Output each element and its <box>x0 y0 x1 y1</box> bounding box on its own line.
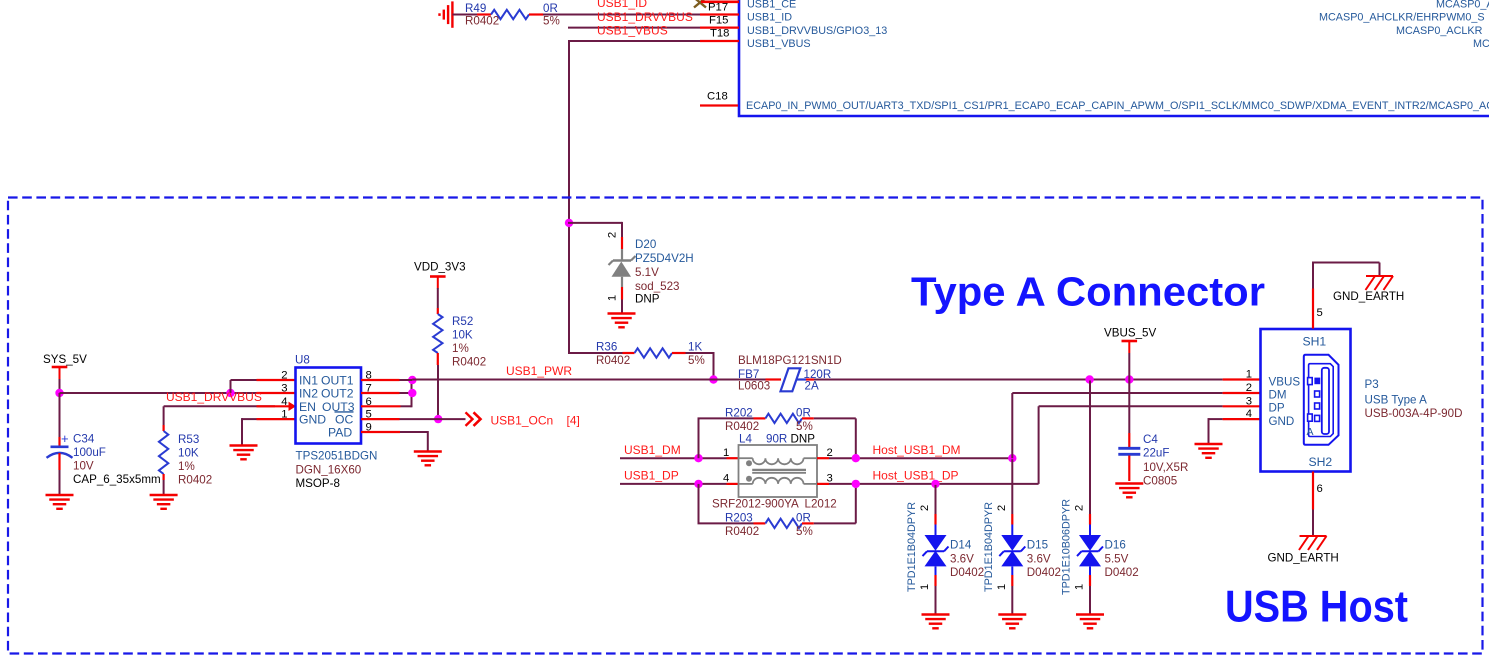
svg-text:4: 4 <box>1246 408 1252 420</box>
resistor R36 <box>623 348 686 357</box>
label R53 tolerance <box>178 460 195 473</box>
svg-text:22uF: 22uF <box>1143 447 1169 460</box>
wire D14 to ground <box>935 586 937 614</box>
ground at R53 <box>150 495 178 509</box>
P3 pin name SH1 <box>1303 335 1327 349</box>
U8 pin numbers right <box>366 370 372 434</box>
power symbol VDD_3V3 <box>430 277 446 289</box>
pin number 1 of D16 <box>1074 584 1086 590</box>
svg-text:USB Host: USB Host <box>1225 583 1408 632</box>
wire R203 left riser <box>698 484 754 524</box>
label D15 refdes <box>1027 539 1048 552</box>
L4 pin number 1 <box>723 447 729 459</box>
svg-text:USB1_DRVVBUS: USB1_DRVVBUS <box>166 390 262 404</box>
svg-text:GND: GND <box>1269 415 1295 428</box>
wire pin6 to earth <box>1312 510 1314 537</box>
label C4 voltage 10V,X5R <box>1143 461 1188 474</box>
capacitor C34 (polarized) <box>47 431 73 458</box>
pin 6 stub P3 <box>1312 472 1314 510</box>
pin 2 stub L4 <box>817 457 829 459</box>
svg-text:[4]: [4] <box>567 413 580 427</box>
pin 1 stub of D20 <box>621 287 623 300</box>
svg-text:TPS2051BDGN: TPS2051BDGN <box>296 450 378 463</box>
label R36 tolerance <box>688 354 705 367</box>
svg-text:USB1_DRVVBUS: USB1_DRVVBUS <box>597 10 693 24</box>
svg-text:5%: 5% <box>796 525 813 538</box>
op-amp U8 box <box>296 368 362 444</box>
resistor R203 <box>754 519 814 528</box>
wire U8 pin1 to ground <box>242 418 257 444</box>
L4 pin number 2 <box>827 447 833 459</box>
svg-text:MCASP0: MCASP0 <box>1473 38 1489 50</box>
svg-text:3.6V: 3.6V <box>950 552 974 565</box>
L4 pin number 3 <box>827 473 833 485</box>
wire USB1_DP <box>620 483 727 485</box>
junction VBUS/D16 <box>1085 375 1093 383</box>
label R202 refdes <box>725 407 753 420</box>
ferrite bead FB7 <box>781 368 807 391</box>
pin stub C34 top <box>58 437 60 446</box>
net label Host_USB1_DM <box>873 443 961 457</box>
pin 2 stub U8 <box>257 379 296 381</box>
svg-text:MCASP0_ACLKR: MCASP0_ACLKR <box>1396 25 1483 37</box>
net label USB1_OCn <box>491 413 554 427</box>
pin F15 stub (USB1_DRVVBUS) <box>700 27 739 29</box>
IC signal USB1_ID <box>747 12 792 24</box>
pin 2 stub P3 <box>1223 392 1261 394</box>
wire C34 to ground <box>59 470 61 494</box>
wire PAD to ground <box>400 431 428 451</box>
svg-text:GND_EARTH: GND_EARTH <box>1333 290 1404 303</box>
wire OC to chevron <box>400 418 466 420</box>
pin number F15 <box>709 15 728 27</box>
net label USB1_DRVVBUS <box>597 10 693 24</box>
label L4 DNP <box>791 433 816 446</box>
svg-text:90R: 90R <box>766 433 787 446</box>
label R36 refdes <box>596 341 617 354</box>
svg-text:DP: DP <box>1269 402 1285 415</box>
label D14 part TPD1E1B04DPYR <box>906 502 918 592</box>
IC signal MCASP0_ACLKR (clipped) <box>1396 25 1483 37</box>
svg-text:PAD: PAD <box>328 425 352 439</box>
svg-text:R203: R203 <box>725 512 753 525</box>
label U8 DGN_16X60 <box>296 463 362 476</box>
svg-text:R52: R52 <box>452 315 473 328</box>
pin USB1_CE stub <box>701 0 739 3</box>
wire FB7 to P3 pin1 <box>814 379 1223 381</box>
label D20 footprint sod_523 <box>635 280 679 293</box>
svg-text:DGN_16X60: DGN_16X60 <box>296 463 362 476</box>
label D20 refdes <box>635 238 656 251</box>
label FB7 part BLM18PG121SN1D <box>738 354 842 367</box>
pin 8 stub U8 <box>361 379 400 381</box>
IC signal USB1_DRVVBUS/GPIO3_13 <box>747 25 887 37</box>
label R202 value 0R <box>796 407 811 420</box>
svg-text:CAP_6_35x5mm: CAP_6_35x5mm <box>73 473 161 486</box>
label L4 refdes <box>739 433 752 446</box>
svg-text:3.6V: 3.6V <box>1027 552 1051 565</box>
wire USB1_VBUS horizontal <box>569 40 700 42</box>
pin 4 stub L4 <box>727 483 739 485</box>
label R52 value 10K <box>452 329 473 342</box>
pin 1 stub D16 <box>1089 575 1091 586</box>
P3 pin numbers <box>1246 369 1252 420</box>
pin 5 stub U8 <box>361 418 400 420</box>
label R203 footprint <box>725 525 759 538</box>
wire R203 right riser <box>814 484 856 524</box>
label P3 refdes <box>1365 378 1379 391</box>
ground at D14 <box>922 615 950 629</box>
pin number 2 of D15 <box>996 505 1008 511</box>
pin number 1 of D15 <box>996 584 1008 590</box>
label U8 MSOP-8 <box>296 477 340 490</box>
pin 7 stub U8 <box>361 392 400 394</box>
wire VBUS_5V to net <box>1128 353 1130 380</box>
label D14 refdes <box>950 539 972 552</box>
pin 1 stub L4 <box>727 457 739 459</box>
svg-text:1K: 1K <box>688 341 702 354</box>
svg-text:SH2: SH2 <box>1309 455 1333 469</box>
wire VDD_3V3 to R52 <box>437 288 439 308</box>
svg-text:4: 4 <box>723 473 729 485</box>
svg-text:PZ5D4V2H: PZ5D4V2H <box>635 252 694 265</box>
ground at D20 <box>608 314 636 328</box>
svg-text:USB1_PWR: USB1_PWR <box>506 364 572 378</box>
svg-text:SRF2012-900YA: SRF2012-900YA <box>712 498 799 511</box>
net label Host_USB1_DP <box>873 469 959 483</box>
svg-text:D0402: D0402 <box>1027 566 1061 579</box>
TVS diode D16 <box>1077 535 1103 566</box>
ground at U8 pin1 <box>230 446 258 460</box>
svg-text:6: 6 <box>1317 483 1323 495</box>
svg-text:P3: P3 <box>1365 378 1379 391</box>
D14 bottom lead <box>935 567 937 576</box>
svg-text:C34: C34 <box>73 433 95 446</box>
junction OUT1 tie <box>408 376 416 384</box>
label L4 part SRF2012-900YA <box>712 498 799 511</box>
svg-text:USB1_OCn: USB1_OCn <box>491 413 554 427</box>
pin 1 stub D15 <box>1011 575 1013 586</box>
pin 2 stub D15 <box>1011 514 1013 525</box>
U8 pin name EN <box>299 400 316 414</box>
svg-text:R202: R202 <box>725 407 753 420</box>
P3 pin number 6 <box>1317 483 1323 495</box>
svg-text:D16: D16 <box>1105 539 1126 552</box>
wire to D15 <box>1011 459 1013 514</box>
net label USB1_DM <box>624 443 681 457</box>
label GND_EARTH top <box>1333 290 1404 303</box>
wire R52 to OC net <box>437 365 439 419</box>
wire OUT2 to tie <box>400 392 412 394</box>
pin 3 stub L4 <box>817 483 829 485</box>
U8 pin numbers left <box>281 370 287 421</box>
svg-text:0R: 0R <box>796 512 811 525</box>
label R53 refdes <box>178 433 199 446</box>
common-mode choke L4 <box>739 445 818 497</box>
pin 3 stub P3 <box>1223 405 1261 407</box>
pin 1 stub U8 <box>257 418 296 420</box>
label R52 tolerance <box>452 342 469 355</box>
net label USB1_ID <box>597 0 647 10</box>
no-connect X on pin USB1_CE <box>694 0 706 8</box>
label FB7 current 2A <box>805 380 819 393</box>
label FB7 value 120R <box>804 368 832 381</box>
pin 4 stub P3 <box>1223 418 1261 420</box>
junction R36/USB1_PWR <box>709 375 717 383</box>
svg-text:USB-003A-4P-90D: USB-003A-4P-90D <box>1365 407 1463 420</box>
connector P3 box <box>1261 329 1351 472</box>
svg-text:2: 2 <box>919 505 931 511</box>
wire R36 to USB1_PWR <box>686 352 714 380</box>
label D16 footprint D0402 <box>1105 566 1139 579</box>
svg-text:1: 1 <box>919 584 931 590</box>
label VDD_3V3 <box>414 261 466 274</box>
label P3 USB Type A <box>1365 394 1428 407</box>
junction SYS_5V/C34 <box>55 389 63 397</box>
svg-text:Type A Connector: Type A Connector <box>911 268 1265 314</box>
pin number 1 of D20 <box>607 295 619 301</box>
svg-text:MSOP-8: MSOP-8 <box>296 477 340 490</box>
svg-text:R0402: R0402 <box>465 15 499 28</box>
junction DP/R203 right <box>852 480 860 488</box>
TVS diode D15 <box>999 535 1025 566</box>
svg-text:TPD1E10B06DPYR: TPD1E10B06DPYR <box>1061 499 1073 595</box>
IC signal MCASP0_AHCLKR/EHRPWM0_ (clipped) <box>1319 12 1485 24</box>
label SYS_5V <box>43 353 87 366</box>
svg-text:10V: 10V <box>73 460 94 473</box>
svg-text:3: 3 <box>1246 395 1252 407</box>
U8 pin name PAD <box>328 425 352 439</box>
power symbol VBUS_5V <box>1122 341 1138 353</box>
pin P17 stub (USB1_ID) <box>700 13 739 15</box>
svg-text:C0805: C0805 <box>1143 474 1177 487</box>
svg-text:5%: 5% <box>796 420 813 433</box>
svg-text:0R: 0R <box>543 2 558 15</box>
svg-text:TPD1E1B04DPYR: TPD1E1B04DPYR <box>983 502 995 592</box>
ground at U8 PAD <box>414 452 442 466</box>
svg-text:R0402: R0402 <box>178 474 212 487</box>
off-page chevron USB1_OCn <box>466 412 481 426</box>
label D14 value 3.6V <box>950 552 974 565</box>
label C34 refdes <box>73 433 95 446</box>
junction DM/R202 left <box>694 454 702 462</box>
U8 pin name OUT1 <box>321 373 354 387</box>
wire to D20 <box>568 222 622 237</box>
svg-text:1: 1 <box>996 584 1008 590</box>
svg-text:USB Type A: USB Type A <box>1365 394 1428 407</box>
net label USB1_PWR <box>506 364 572 378</box>
wire R202 right riser <box>814 418 856 458</box>
pin number P17 <box>708 2 728 14</box>
junction DM/D15 <box>1008 454 1016 462</box>
wire DP riser to P3 <box>1039 406 1223 484</box>
label C4 footprint C0805 <box>1143 474 1177 487</box>
wire VBUS to C4 <box>1128 380 1130 434</box>
svg-text:Host_USB1_DP: Host_USB1_DP <box>873 469 959 483</box>
label L4 value 90R <box>766 433 787 446</box>
U8 pin name GND <box>299 413 326 427</box>
wire R53 to ground <box>163 480 165 494</box>
svg-text:+: + <box>61 431 69 446</box>
svg-text:10K: 10K <box>178 447 199 460</box>
label D16 refdes <box>1105 539 1126 552</box>
label D16 value 5.5V <box>1105 552 1129 565</box>
svg-text:USB1_DM: USB1_DM <box>624 443 681 457</box>
net label [4] <box>567 413 580 427</box>
svg-text:2: 2 <box>1074 505 1086 511</box>
svg-text:5.5V: 5.5V <box>1105 552 1129 565</box>
power symbol SYS_5V <box>52 367 68 379</box>
D16 bottom lead <box>1089 567 1091 576</box>
svg-text:D14: D14 <box>950 539 972 552</box>
svg-text:1: 1 <box>607 295 619 301</box>
wire D15 to ground <box>1011 586 1013 614</box>
pin stub C4 top <box>1128 433 1130 447</box>
U8 pin name OC with overbar <box>335 412 354 427</box>
label C4 refdes <box>1143 433 1158 446</box>
zener diode D20 <box>609 249 636 287</box>
svg-text:4: 4 <box>281 396 287 408</box>
label VBUS_5V <box>1104 327 1156 340</box>
P3 pin name GND <box>1269 415 1295 428</box>
label D20 value 5.1V <box>635 266 659 279</box>
label D20 part PZ5D4V2H <box>635 252 694 265</box>
wire R49 to pin P17 <box>543 14 700 16</box>
pin stub C4 bottom <box>1128 456 1130 482</box>
svg-text:TPD1E1B04DPYR: TPD1E1B04DPYR <box>906 502 918 592</box>
svg-text:SYS_5V: SYS_5V <box>43 353 87 366</box>
wire ground to R49 <box>452 14 477 16</box>
svg-text:BLM18PG121SN1D: BLM18PG121SN1D <box>738 354 842 367</box>
title USB Host <box>1225 583 1408 632</box>
IC signal USB1_CE <box>747 0 796 10</box>
pin number C18 <box>707 91 728 103</box>
wire DM riser to P3 <box>1012 393 1222 458</box>
svg-text:A: A <box>1307 426 1314 438</box>
svg-text:DM: DM <box>1269 389 1287 402</box>
svg-text:GND_EARTH: GND_EARTH <box>1268 551 1339 564</box>
pin 9 stub U8 <box>361 431 400 433</box>
pin 3 stub U8 <box>257 392 296 394</box>
IC signal MCASP0_ (clipped) <box>1436 0 1489 10</box>
junction OUT2 tie <box>408 389 416 397</box>
ground at C4 <box>1115 484 1143 498</box>
D14 top lead <box>935 525 937 536</box>
label R202 footprint <box>725 420 759 433</box>
net label USB1_DRVVBUS at U8 <box>166 390 262 404</box>
label R203 value 0R <box>796 512 811 525</box>
svg-text:R36: R36 <box>596 341 617 354</box>
label U8 part TPS2051BDGN <box>296 450 378 463</box>
svg-text:ECAP0_IN_PWM0_OUT/UART3_TXD/SP: ECAP0_IN_PWM0_OUT/UART3_TXD/SPI1_CS1/PR1… <box>746 100 1489 112</box>
svg-text:USB1_ID: USB1_ID <box>597 0 647 10</box>
pin 2 stub D16 <box>1089 514 1091 525</box>
ground at D15 <box>998 615 1026 629</box>
svg-text:DNP: DNP <box>791 433 816 446</box>
svg-text:L2012: L2012 <box>805 498 837 511</box>
wire SYS_5V down <box>59 379 61 393</box>
svg-text:T18: T18 <box>710 28 729 40</box>
L4 pin number 4 <box>723 473 729 485</box>
wire R202 left riser <box>698 418 754 458</box>
pin 6 stub U8 <box>361 405 401 407</box>
label R49 refdes <box>465 2 486 15</box>
label R49 tolerance 5% <box>543 15 560 28</box>
wire R53 to EN <box>164 405 275 407</box>
svg-text:1: 1 <box>723 447 729 459</box>
label R53 value 10K <box>178 447 199 460</box>
label D20 DNP <box>635 293 660 306</box>
label R36 footprint <box>596 354 630 367</box>
pin C18 stub <box>700 104 738 106</box>
svg-text:C4: C4 <box>1143 433 1158 446</box>
pin stub FB7 right <box>806 378 814 380</box>
U8 pin name OUT3 <box>322 400 355 414</box>
label L4 footprint L2012 <box>805 498 837 511</box>
wire OUT3 to tie <box>401 380 412 407</box>
svg-text:R0402: R0402 <box>725 525 759 538</box>
resistor R202 <box>754 414 814 423</box>
wire P3 pin4 to ground <box>1209 418 1223 443</box>
label FB7 refdes <box>738 368 759 381</box>
wire USB1_VBUS vertical <box>568 40 570 354</box>
label C34 footprint <box>73 473 161 486</box>
svg-text:L0603: L0603 <box>738 380 770 393</box>
label D15 part TPD1E1B04DPYR <box>983 502 995 592</box>
chassis ground bottom GND_EARTH <box>1299 536 1327 550</box>
label C34 voltage 10V <box>73 460 94 473</box>
svg-text:Host_USB1_DM: Host_USB1_DM <box>873 443 961 457</box>
junction DM/R202 right <box>852 454 860 462</box>
ground at D16 <box>1076 615 1104 629</box>
svg-text:USB1_DRVVBUS/GPIO3_13: USB1_DRVVBUS/GPIO3_13 <box>747 25 887 37</box>
pin 1 stub D14 <box>934 575 936 586</box>
pin 5 stub P3 <box>1312 289 1314 329</box>
P3 pin name VBUS <box>1269 375 1301 388</box>
net label USB1_VBUS <box>597 24 668 38</box>
dashed section border <box>8 198 1483 654</box>
svg-text:MCASP0_AXR1/E: MCASP0_AXR1/E <box>1436 0 1489 10</box>
svg-text:L4: L4 <box>739 433 752 446</box>
pin 2 stub of D20 <box>621 237 623 249</box>
ground (rotated) at R49 <box>440 1 453 27</box>
svg-text:5%: 5% <box>688 354 705 367</box>
wire pin5 to earth <box>1312 263 1380 289</box>
junction DP/D14 <box>931 480 939 488</box>
svg-text:R0402: R0402 <box>725 420 759 433</box>
junction IN1/IN2 tie <box>226 389 234 397</box>
pin stub C34 bottom <box>58 453 60 470</box>
svg-text:2: 2 <box>281 370 287 382</box>
wire USB1_PWR run <box>400 379 766 382</box>
label C4 value 22uF <box>1143 447 1169 460</box>
chassis ground top GND_EARTH <box>1366 276 1394 290</box>
ground at P3 pin4 <box>1195 444 1223 458</box>
D15 top lead <box>1011 525 1013 536</box>
svg-text:2A: 2A <box>805 380 819 393</box>
svg-text:VDD_3V3: VDD_3V3 <box>414 261 466 274</box>
svg-text:C18: C18 <box>707 91 728 103</box>
svg-text:USB1_ID: USB1_ID <box>747 12 792 24</box>
svg-text:D20: D20 <box>635 238 656 251</box>
label R203 tolerance <box>796 525 813 538</box>
svg-text:OUT2: OUT2 <box>321 387 354 401</box>
pin number T18 <box>710 28 729 40</box>
svg-text:1: 1 <box>281 409 287 421</box>
svg-text:USB1_VBUS: USB1_VBUS <box>597 24 668 38</box>
label R49 value 0R <box>543 2 558 15</box>
label D15 footprint D0402 <box>1027 566 1061 579</box>
